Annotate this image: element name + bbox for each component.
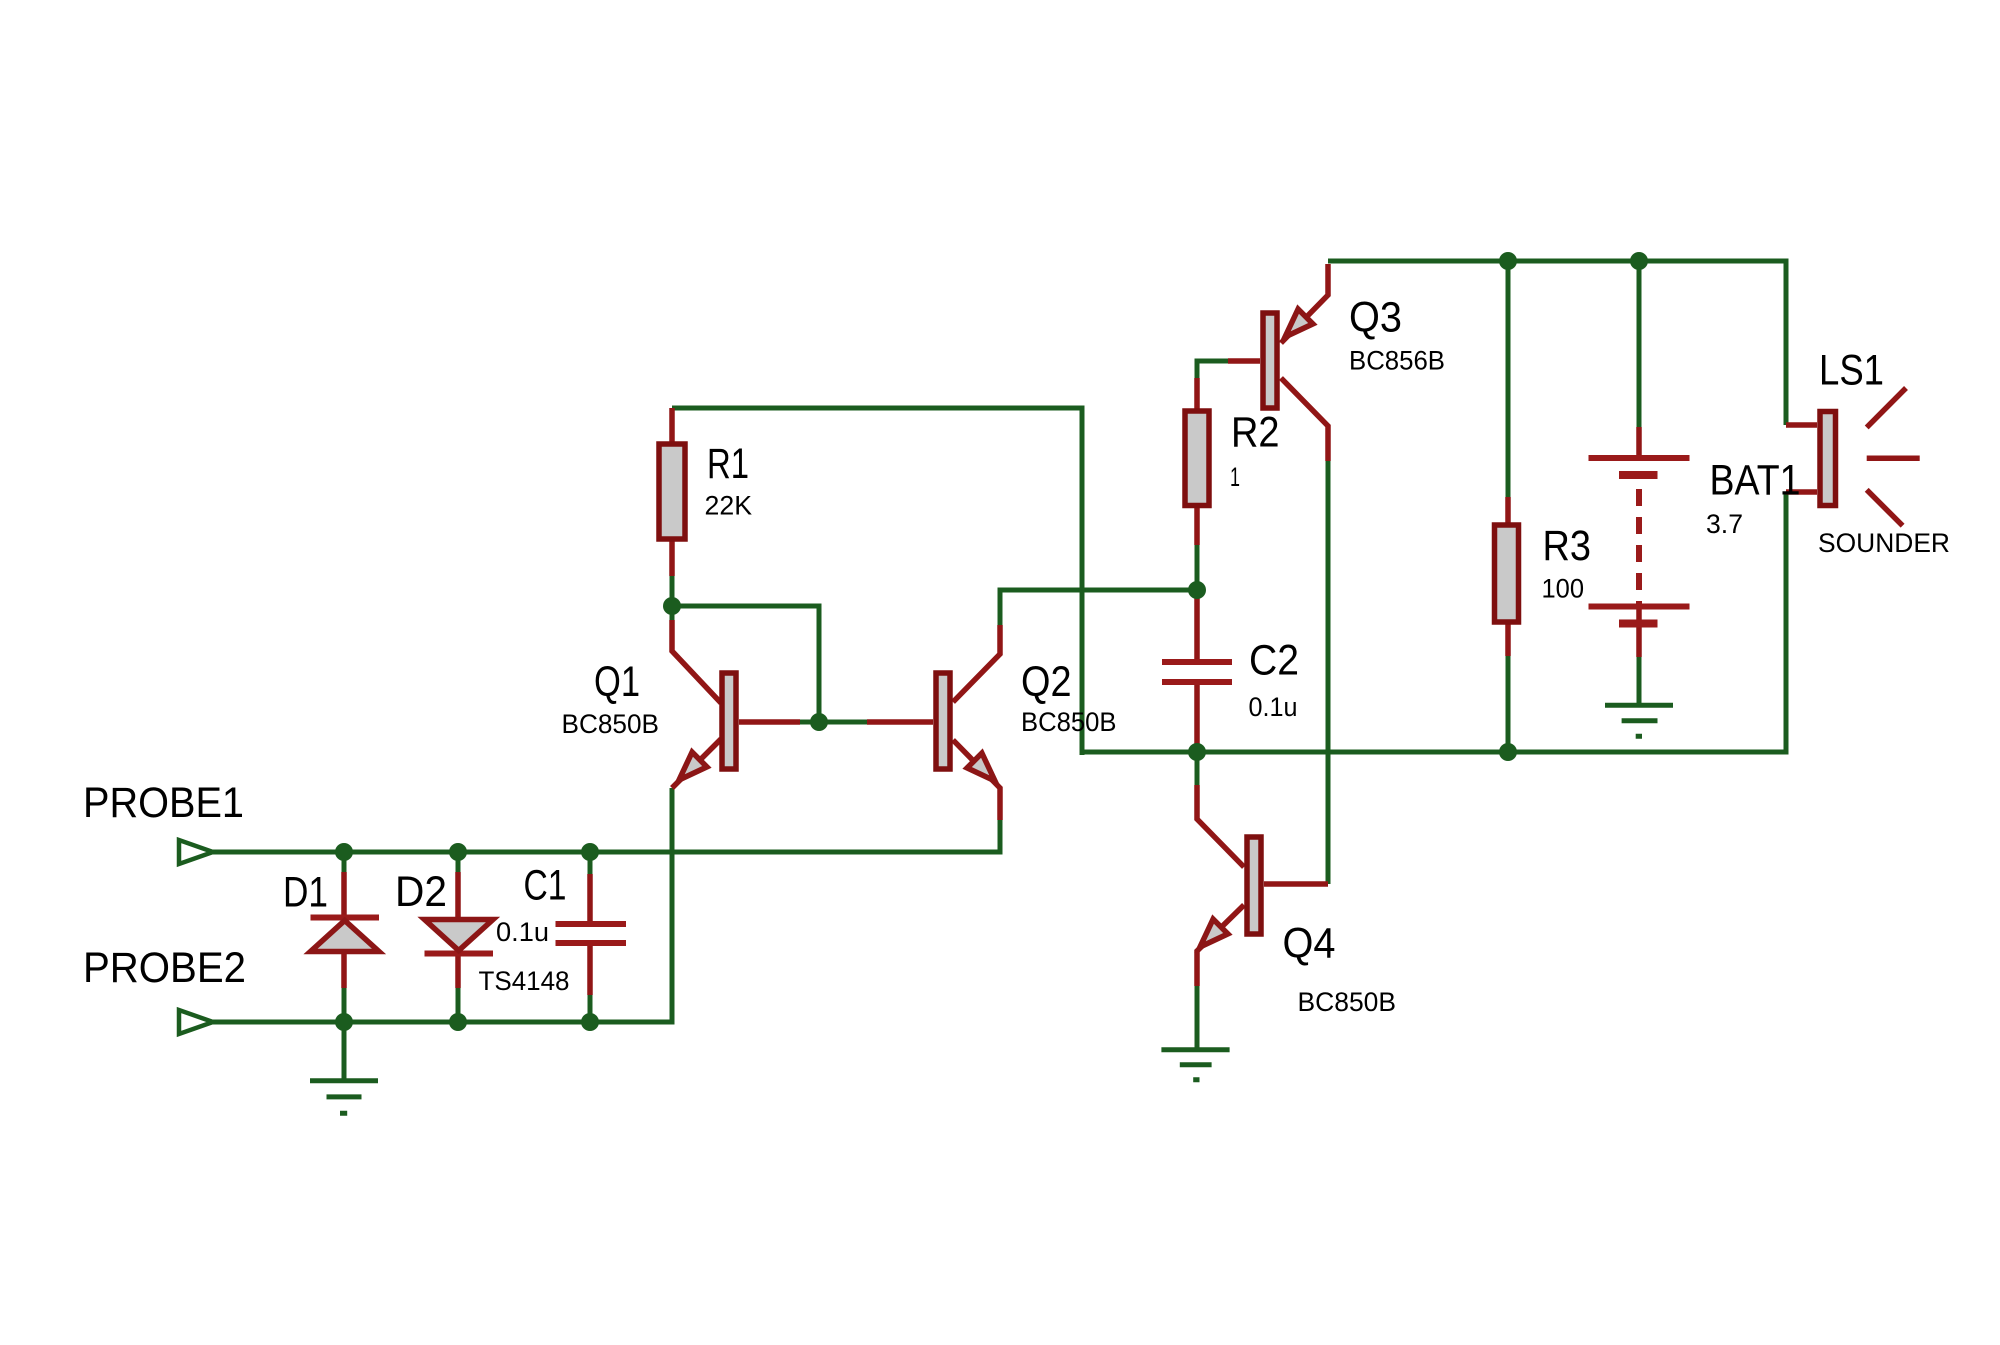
svg-text:BC856B: BC856B (1349, 346, 1445, 376)
svg-text:BC850B: BC850B (1021, 707, 1117, 737)
resistor R1 (659, 408, 685, 606)
probe terminal PROBE2 (179, 1010, 213, 1034)
wire PROBE2 net horizontal and Q1 emitter riser (213, 820, 672, 1022)
svg-text:R3: R3 (1543, 523, 1592, 570)
wire R2 bottom lead green part (1195, 545, 1200, 590)
loudspeaker LS1 (1786, 388, 1920, 526)
svg-text:R2: R2 (1231, 410, 1280, 457)
svg-text:BC850B: BC850B (1298, 987, 1397, 1017)
ground (battery) (1605, 705, 1673, 736)
wire BAT1 bottom lead green to ground (1637, 657, 1642, 704)
wire PROBE2 ground stem (342, 1022, 347, 1079)
svg-text:TS4148: TS4148 (479, 966, 570, 996)
wire top power rail and right vertical to LS1 top lead (1328, 261, 1786, 425)
node junction D1/PROBE2 (335, 1013, 353, 1031)
node junction BAT1/top rail (1630, 252, 1648, 270)
svg-text:Q2: Q2 (1021, 659, 1072, 706)
node junction C2/bottom rail (1188, 743, 1206, 761)
svg-text:R1: R1 (707, 441, 749, 488)
capacitor C1 (556, 874, 627, 995)
ground (Q4 emitter) (1161, 1050, 1229, 1080)
wire junction below R1 to Q1/Q2 base node (672, 606, 819, 722)
diode D1 (311, 872, 380, 988)
wire Q4 collector green stub (1195, 752, 1200, 785)
capacitor C2 (1162, 590, 1232, 752)
node junction C1/PROBE2 (581, 1013, 599, 1031)
svg-text:C1: C1 (524, 863, 567, 910)
svg-text:LS1: LS1 (1819, 348, 1884, 395)
svg-text:Q1: Q1 (594, 659, 640, 706)
ground (PROBE2 net) (310, 1081, 378, 1114)
transistor Q4 (1197, 785, 1328, 986)
wire R3 bottom lead green (1506, 656, 1511, 752)
node junction D1/PROBE1 (335, 843, 353, 861)
resistor R2 (1185, 378, 1209, 545)
wire R1 top to x=1082 vertical feedback run (672, 408, 1082, 755)
svg-text:PROBE2: PROBE2 (83, 945, 246, 992)
svg-text:SOUNDER: SOUNDER (1818, 528, 1950, 558)
node junction D2/PROBE1 (449, 843, 467, 861)
svg-text:PROBE1: PROBE1 (83, 780, 244, 827)
svg-text:3.7: 3.7 (1706, 509, 1743, 539)
transistor Q3 (1228, 264, 1328, 461)
node junction R2/C2 (1188, 581, 1206, 599)
svg-text:BC850B: BC850B (562, 709, 660, 739)
wire Q1 emitter upper green joint (670, 788, 675, 820)
wire C1 green stubs (588, 852, 593, 1022)
node junction Q1/Q2 base (810, 713, 828, 731)
node junction R3/top rail (1499, 252, 1517, 270)
node junction D2/PROBE2 (449, 1013, 467, 1031)
svg-text:0.1u: 0.1u (496, 917, 549, 947)
node junction C1/PROBE1 (581, 843, 599, 861)
wire Q2 collector to R2/C2 node (1000, 590, 1197, 625)
resistor R3 (1495, 497, 1519, 656)
wire Q1 collector green stub (670, 606, 675, 620)
wire Q4 emitter green to ground (1195, 986, 1200, 1048)
svg-text:1: 1 (1230, 462, 1240, 492)
node junction below R1 (663, 597, 681, 615)
probe terminal PROBE1 (179, 840, 213, 864)
svg-text:C2: C2 (1249, 638, 1299, 685)
wire R2 top to Q3 base (1197, 361, 1228, 408)
wire Q1-Q2 base link (800, 720, 867, 725)
wire bottom rail and right vertical to LS1 bottom lead (1082, 492, 1786, 752)
wire D2 green stubs (456, 852, 461, 1022)
svg-text:Q4: Q4 (1283, 921, 1336, 968)
wire BAT1 top lead green (1637, 258, 1642, 427)
node junction R3/bottom rail (1499, 743, 1517, 761)
battery BAT1 (1589, 427, 1690, 657)
wire PROBE1 net horizontal and Q2 emitter riser (213, 820, 1000, 852)
diode D2 (425, 872, 494, 988)
svg-text:Q3: Q3 (1349, 295, 1402, 342)
svg-text:100: 100 (1542, 574, 1585, 604)
svg-text:D1: D1 (283, 870, 328, 917)
wire R3 top lead green (1506, 258, 1511, 497)
transistor Q1 (672, 620, 800, 788)
transistor Q2 (867, 625, 1000, 820)
svg-text:BAT1: BAT1 (1710, 458, 1801, 505)
wire Q3 collector vertical down to Q4 base (1326, 461, 1331, 884)
svg-text:22K: 22K (705, 491, 753, 521)
wire D1 green stubs (342, 852, 347, 1022)
svg-text:D2: D2 (395, 869, 447, 916)
svg-text:0.1u: 0.1u (1249, 692, 1298, 722)
